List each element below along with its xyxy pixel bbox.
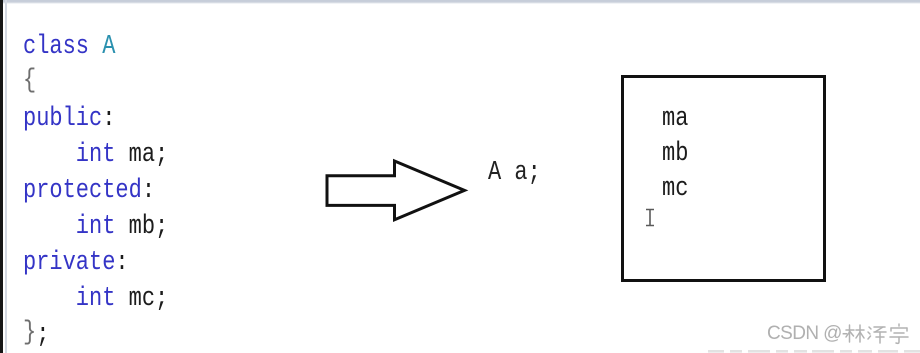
- declaration text: A a;: [488, 158, 541, 188]
- CSDN watermark: [767, 323, 848, 345]
- code block: class A definition: [23, 29, 168, 353]
- top window border bar: [2, 0, 920, 4]
- left inner light line: [5, 0, 7, 353]
- object box: [621, 75, 826, 282]
- left black window edge: [0, 0, 3, 353]
- hand-drawn CJK glyphs 林泽宇: [845, 323, 909, 345]
- 泽: [869, 327, 871, 329]
- 宇: [898, 324, 900, 326]
- I-beam text cursor: [644, 208, 658, 228]
- block arrow: [320, 155, 470, 227]
- 林: [846, 329, 854, 331]
- box member text: [662, 102, 688, 207]
- faint clipped watermark row at bottom edge: [700, 348, 920, 353]
